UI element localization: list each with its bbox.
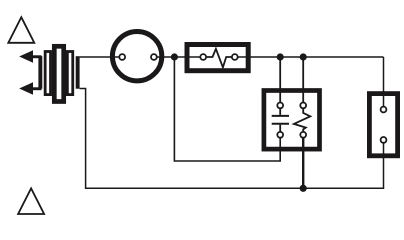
wire: right side down to terminal block — [383, 57, 385, 107]
node C (junction above PTC) — [300, 53, 307, 60]
node D (junction on bottom return) — [300, 185, 307, 192]
motor terminal pin (right) — [151, 54, 157, 60]
supply arrow (top) — [19, 50, 41, 62]
terminal block pin (bottom) — [381, 137, 387, 143]
warning triangle (bottom-left) — [18, 188, 44, 214]
capacitor C1 lead (bottom) — [279, 125, 281, 132]
thermal protector terminal pin (right) — [232, 54, 238, 60]
thermal protector terminal pin (left) — [200, 54, 206, 60]
supply arrow (bottom) — [19, 82, 41, 94]
thermal protector bimetal zigzag — [206, 49, 232, 68]
connector X1 — [38, 46, 79, 101]
warning triangle (top-left) — [8, 17, 34, 43]
wire: connector to motor — [80, 56, 120, 58]
thermal protector F1 box — [187, 45, 248, 71]
wire: node D to terminal block bottom — [303, 143, 383, 188]
relay pin bottom-right — [300, 132, 306, 138]
motor M1 — [112, 32, 161, 81]
wire: thermal protector to terminal block — [238, 56, 384, 58]
wire: node C down to relay box — [302, 57, 304, 103]
wire: connector bottom return run — [80, 89, 304, 189]
node A (junction at motor output) — [171, 53, 178, 60]
terminal block X2 box — [369, 94, 397, 156]
relay pin bottom-left — [277, 132, 283, 138]
motor terminal pin (left) — [119, 54, 125, 60]
node B (junction above capacitor) — [277, 53, 284, 60]
starting relay K1 box — [264, 91, 320, 150]
relay pin top-right — [300, 103, 306, 109]
wire: node B down to relay box — [279, 57, 281, 103]
PTC resistor R1 zigzag — [294, 108, 310, 132]
wire: motor to thermal protector — [157, 56, 201, 58]
relay pin top-left — [277, 103, 283, 109]
wire: relay bottom-left pin down and left to node A leg — [174, 57, 280, 161]
wire: relay bottom-right pin down to node D — [302, 138, 304, 189]
capacitor C1 lead (top) — [279, 108, 281, 115]
capacitor C1 plates — [272, 116, 289, 124]
terminal block pin (top) — [381, 107, 387, 113]
